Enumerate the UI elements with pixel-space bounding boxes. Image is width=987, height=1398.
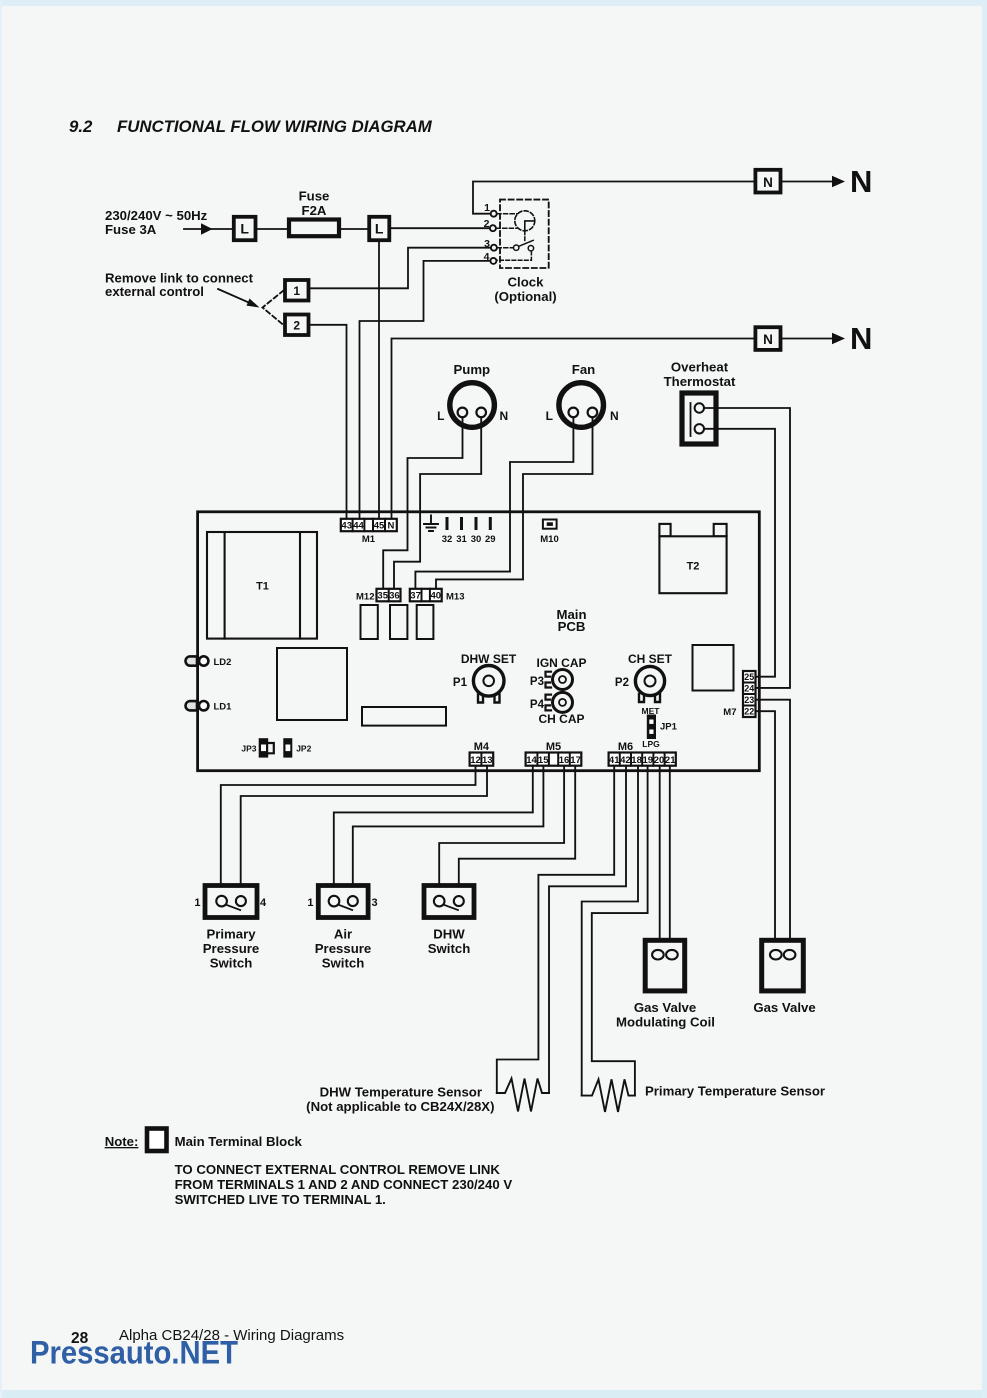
clock switch lever <box>519 240 533 246</box>
svg-text:Modulating Coil: Modulating Coil <box>616 1014 715 1029</box>
svg-text:JP1: JP1 <box>660 722 678 733</box>
clock dashed box <box>500 200 549 268</box>
svg-text:N: N <box>850 164 872 199</box>
terminal L2 <box>369 217 389 240</box>
svg-text:M7: M7 <box>723 707 736 718</box>
wire M5-15 to air pressure switch <box>353 766 544 896</box>
svg-text:30: 30 <box>471 534 482 545</box>
dashed lead clock3 <box>497 247 513 249</box>
svg-text:1: 1 <box>484 202 490 214</box>
svg-text:DHW: DHW <box>433 927 465 942</box>
svg-text:M5: M5 <box>546 741 561 753</box>
gas valve modulating coil <box>645 940 685 991</box>
thermostat body <box>682 393 716 444</box>
wire fan N to M13-40 <box>436 417 593 589</box>
svg-text:IGN CAP: IGN CAP <box>536 656 586 670</box>
svg-text:L: L <box>375 221 384 237</box>
transformer T2 <box>659 524 726 593</box>
svg-text:24: 24 <box>744 684 754 694</box>
wire L1 to fuse <box>256 228 290 230</box>
svg-text:LPG: LPG <box>642 739 660 749</box>
svg-text:32: 32 <box>442 534 453 545</box>
wire M5-16 to DHW switch <box>439 766 564 896</box>
wire M5-14 to air pressure switch <box>334 766 533 896</box>
svg-text:Pressure: Pressure <box>203 941 259 956</box>
svg-text:2: 2 <box>484 218 490 230</box>
terminal N second <box>755 327 780 350</box>
component box 2 <box>390 605 407 639</box>
svg-text:4: 4 <box>260 897 267 909</box>
svg-text:Thermostat: Thermostat <box>664 374 736 389</box>
pin 29 <box>489 519 492 529</box>
terminal L1 <box>234 217 256 240</box>
terminal block M13 <box>410 589 442 602</box>
ext control terminal 1 <box>285 280 309 301</box>
svg-text:L: L <box>240 221 249 237</box>
svg-text:Air: Air <box>334 927 352 942</box>
svg-text:Gas Valve: Gas Valve <box>634 1000 696 1015</box>
wire M6-19 to primary sensor <box>592 766 648 1096</box>
clock face circle <box>515 211 535 231</box>
component box 1 <box>361 605 378 639</box>
mains arrow <box>184 228 202 230</box>
wire thermostat top to M7-24 <box>704 408 790 688</box>
page edge top <box>0 0 987 6</box>
thermostat terminal bottom <box>695 424 704 433</box>
svg-text:9.2: 9.2 <box>69 117 93 136</box>
clock terminal circle 3 <box>491 245 497 251</box>
clock switch contact left <box>514 245 519 250</box>
clock terminal circle 4 <box>490 258 496 264</box>
primary temperature sensor resistor <box>582 1079 635 1112</box>
svg-text:SWITCHED LIVE TO TERMINAL 1.: SWITCHED LIVE TO TERMINAL 1. <box>175 1192 386 1207</box>
svg-text:M13: M13 <box>446 591 464 602</box>
svg-text:N: N <box>850 321 872 356</box>
svg-text:Pressure: Pressure <box>315 941 371 956</box>
svg-text:43: 43 <box>341 521 352 532</box>
svg-text:44: 44 <box>353 521 364 532</box>
svg-text:PCB: PCB <box>558 619 586 634</box>
svg-text:Clock: Clock <box>508 275 545 290</box>
fan body <box>559 383 604 428</box>
wire clock3 to ext terminal 1 <box>309 248 491 289</box>
svg-text:15: 15 <box>538 755 549 766</box>
ext control terminal 2 <box>285 315 309 336</box>
note terminal block symbol <box>147 1129 167 1152</box>
svg-text:(Not applicable to CB24X/28X): (Not applicable to CB24X/28X) <box>306 1099 494 1114</box>
wire fuse to L2 <box>339 228 369 230</box>
svg-text:external control: external control <box>105 284 204 299</box>
svg-text:Gas Valve: Gas Valve <box>753 1000 815 1015</box>
svg-text:L: L <box>546 409 553 423</box>
svg-text:N: N <box>610 409 619 423</box>
svg-text:Pump: Pump <box>453 362 490 377</box>
svg-text:1: 1 <box>293 284 300 298</box>
wire M1-N up to N line <box>392 339 756 520</box>
wire thermostat bottom to M7-25 <box>704 429 775 677</box>
transformer T1 <box>207 532 317 639</box>
wire M5-17 to DHW switch <box>459 766 575 896</box>
arrow N second <box>781 338 834 340</box>
svg-text:Fuse: Fuse <box>299 189 330 204</box>
primary pressure switch <box>205 886 257 918</box>
svg-text:T2: T2 <box>687 561 700 573</box>
wire clock1 to N line <box>473 182 755 214</box>
svg-text:Note:: Note: <box>105 1134 139 1149</box>
dashed removable link <box>263 291 284 326</box>
M4 terminal block <box>470 753 494 767</box>
svg-text:18: 18 <box>631 755 642 766</box>
thermostat terminal top <box>695 403 704 412</box>
svg-text:F2A: F2A <box>302 203 327 218</box>
svg-text:LD2: LD2 <box>214 657 232 668</box>
PCB outline <box>198 512 760 771</box>
flat component box <box>362 707 446 726</box>
svg-text:P1: P1 <box>453 677 468 689</box>
pump terminal N <box>476 408 486 418</box>
terminal block M12 <box>377 589 401 602</box>
potentiometer P1 <box>473 666 504 703</box>
jumper JP1 <box>647 715 656 740</box>
svg-text:Primary Temperature Sensor: Primary Temperature Sensor <box>645 1084 825 1099</box>
svg-text:41: 41 <box>609 755 620 766</box>
svg-text:N: N <box>763 332 773 347</box>
DHW switch <box>424 886 474 918</box>
svg-text:29: 29 <box>485 534 496 545</box>
wire pump L to M12-35 <box>383 417 462 589</box>
svg-text:P4: P4 <box>530 699 545 711</box>
svg-text:37: 37 <box>410 591 421 602</box>
fan terminal L <box>569 408 579 418</box>
page edge bottom <box>0 1390 987 1398</box>
svg-text:CH CAP: CH CAP <box>538 712 584 726</box>
page edge right <box>982 0 987 1398</box>
svg-text:Switch: Switch <box>322 956 365 971</box>
svg-text:42: 42 <box>620 755 631 766</box>
wire pump N to M12-36 <box>394 417 481 589</box>
component box 3 <box>417 605 434 639</box>
svg-text:N: N <box>387 521 394 532</box>
svg-text:FROM TERMINALS 1 AND 2 AND CON: FROM TERMINALS 1 AND 2 AND CONNECT 230/2… <box>175 1177 513 1192</box>
svg-text:Switch: Switch <box>210 956 253 971</box>
svg-text:40: 40 <box>431 591 442 602</box>
wire M6-41 to DHW sensor <box>497 766 614 1093</box>
dashed lead clock2 <box>496 227 516 229</box>
svg-text:L: L <box>437 409 444 423</box>
svg-text:N: N <box>500 409 509 423</box>
svg-text:Pressauto.NET: Pressauto.NET <box>30 1335 238 1371</box>
pin 31 <box>460 519 463 529</box>
clock switch contact right <box>528 246 533 251</box>
svg-text:N: N <box>763 175 773 190</box>
potentiometer P2 <box>635 666 664 702</box>
pin 32 <box>446 519 449 529</box>
svg-text:LD1: LD1 <box>214 702 233 713</box>
jumper JP2 <box>283 738 292 757</box>
connector M10 <box>543 520 557 529</box>
svg-text:1: 1 <box>194 897 200 909</box>
svg-text:23: 23 <box>744 695 754 705</box>
svg-text:DHW Temperature Sensor: DHW Temperature Sensor <box>320 1085 482 1100</box>
svg-text:13: 13 <box>482 755 493 766</box>
svg-text:Overheat: Overheat <box>671 360 729 375</box>
potentiometer P3 <box>546 670 573 690</box>
svg-text:JP2: JP2 <box>296 743 311 753</box>
wire arrow to L1 <box>211 228 234 230</box>
pin 30 <box>475 519 478 529</box>
arrow N top <box>781 181 834 183</box>
fuse F2A <box>289 220 339 237</box>
terminal N top <box>755 170 780 193</box>
svg-text:JP3: JP3 <box>241 743 256 753</box>
wire L2 to clock terminal 2 <box>389 227 490 229</box>
svg-text:1: 1 <box>307 897 313 909</box>
wire M6-18 to primary sensor <box>582 766 638 1096</box>
wire M7-22 to gas valve <box>756 711 775 950</box>
svg-text:22: 22 <box>744 707 754 717</box>
svg-text:(Optional): (Optional) <box>494 289 556 304</box>
wire clock4 to M1-44 <box>360 261 491 519</box>
fan terminal N <box>588 408 598 418</box>
svg-text:45: 45 <box>374 521 385 532</box>
DHW temperature sensor resistor <box>497 1079 549 1112</box>
wire M4-13 to primary pressure switch <box>241 766 487 896</box>
wire L2 down to M1-45 <box>378 240 380 519</box>
svg-text:Switch: Switch <box>428 941 471 956</box>
svg-text:3: 3 <box>372 897 378 909</box>
svg-text:Fuse 3A: Fuse 3A <box>105 222 157 237</box>
LED LD1 <box>185 701 208 710</box>
svg-text:T1: T1 <box>256 581 269 593</box>
air pressure switch <box>318 886 368 918</box>
potentiometer P4 <box>546 692 573 712</box>
svg-text:M6: M6 <box>618 741 633 753</box>
jumper JP3 <box>259 738 274 757</box>
svg-text:Fan: Fan <box>572 362 595 377</box>
svg-text:14: 14 <box>526 755 537 766</box>
dashed lead clock1 <box>497 213 518 215</box>
clock terminal circle 2 <box>490 225 496 231</box>
LED LD2 <box>185 656 208 665</box>
svg-text:35: 35 <box>377 591 388 602</box>
component box right <box>693 645 734 691</box>
page edge left <box>0 0 2 1398</box>
svg-text:M12: M12 <box>356 591 374 602</box>
thermostat inner bar <box>690 403 692 436</box>
pump terminal L <box>458 408 468 418</box>
gas valve <box>762 940 804 991</box>
svg-text:M10: M10 <box>540 534 558 545</box>
M6 terminal block <box>609 753 677 767</box>
svg-text:19: 19 <box>643 755 654 766</box>
ground symbol <box>424 516 438 532</box>
clock terminal circle 1 <box>491 211 497 217</box>
wire M6-42 to DHW sensor <box>549 766 626 1093</box>
relay box <box>277 648 347 720</box>
svg-text:230/240V ~ 50Hz: 230/240V ~ 50Hz <box>105 208 208 223</box>
dashed switch to clock4 <box>497 251 532 260</box>
svg-text:25: 25 <box>744 672 754 682</box>
svg-text:2: 2 <box>293 319 300 333</box>
wire M6-20 to modulating coil <box>659 766 661 951</box>
svg-text:P2: P2 <box>615 677 629 689</box>
clock hands <box>525 221 534 230</box>
wire M6-21 to modulating coil <box>669 766 671 951</box>
svg-text:12: 12 <box>470 755 481 766</box>
svg-text:20: 20 <box>654 755 665 766</box>
wire M4-12 to primary pressure switch <box>221 766 476 896</box>
svg-text:M4: M4 <box>474 741 490 753</box>
pump body <box>450 383 495 428</box>
svg-text:M1: M1 <box>362 534 376 545</box>
svg-text:TO CONNECT EXTERNAL CONTROL RE: TO CONNECT EXTERNAL CONTROL REMOVE LINK <box>175 1162 501 1177</box>
M5 terminal block <box>526 753 582 767</box>
wire M7-23 to gas valve <box>756 700 790 950</box>
wire fan L to M13-37 <box>415 417 573 589</box>
svg-text:17: 17 <box>570 755 581 766</box>
svg-text:Primary: Primary <box>206 927 256 942</box>
wire ext2 to M1-43 <box>309 325 347 519</box>
svg-text:36: 36 <box>389 591 400 602</box>
svg-text:CH SET: CH SET <box>628 652 673 666</box>
svg-text:FUNCTIONAL FLOW WIRING DIAGRAM: FUNCTIONAL FLOW WIRING DIAGRAM <box>117 117 433 136</box>
dashed clock to switch <box>524 231 526 241</box>
svg-text:21: 21 <box>665 755 676 766</box>
svg-text:16: 16 <box>559 755 570 766</box>
terminal block M7 <box>743 671 756 717</box>
svg-text:31: 31 <box>456 534 467 545</box>
svg-text:P3: P3 <box>530 676 544 688</box>
M1 terminal block <box>341 519 397 532</box>
pointer arrow to link <box>218 289 252 304</box>
svg-text:Main Terminal Block: Main Terminal Block <box>175 1134 303 1149</box>
